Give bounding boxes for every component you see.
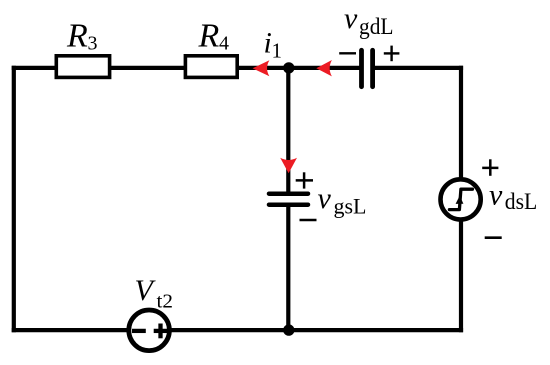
resistor R4	[185, 56, 237, 78]
wire: bottom horizontal left (Vt2 to corner)	[12, 328, 127, 332]
svg-text:v: v	[318, 182, 332, 215]
capacitor vgdL: right plate	[370, 50, 375, 86]
capacitor vgsL: bottom plate	[269, 202, 308, 207]
arrowhead on step symbol	[456, 196, 464, 204]
svg-text:R: R	[66, 18, 88, 55]
node: bottom junction	[283, 324, 294, 335]
wire: bottom horizontal right (corner to node to Vt2)	[171, 328, 463, 332]
svg-text:3: 3	[88, 32, 98, 54]
wire: right vertical upper (corner to source vdsL)	[459, 66, 463, 179]
svg-text:v: v	[344, 2, 358, 35]
svg-text:dsL: dsL	[505, 189, 538, 214]
minus sign below vgsL capacitor	[300, 219, 317, 221]
wire: middle vertical from node to capacitor vgsL	[286, 68, 290, 194]
source Vt2 circle	[129, 310, 170, 351]
wire: R4 to capacitor vgdL (through node)	[237, 66, 360, 70]
wire: between R3 and R4	[110, 66, 186, 70]
minus sign below vdsL	[485, 236, 502, 239]
current arrow (right of node)	[316, 60, 332, 76]
plus sign above vdsL	[482, 159, 498, 176]
plus sign inside Vt2	[154, 324, 168, 339]
capacitor vgdL: left plate	[359, 50, 364, 86]
source vdsL circle	[441, 179, 481, 219]
current arrow downward on middle branch	[280, 158, 297, 174]
wire: capacitor vgdL to top-right corner	[375, 66, 463, 70]
resistor R3	[56, 56, 109, 78]
svg-text:1: 1	[272, 39, 283, 63]
svg-text:V: V	[135, 274, 157, 307]
svg-text:t2: t2	[157, 291, 174, 313]
minus sign left of vgdL capacitor	[339, 52, 356, 54]
svg-text:gdL: gdL	[359, 14, 394, 39]
svg-text:R: R	[198, 18, 220, 55]
wire: left vertical side	[12, 66, 16, 332]
svg-text:4: 4	[219, 32, 229, 54]
svg-text:gsL: gsL	[334, 193, 367, 218]
capacitor vgsL: top plate	[269, 191, 308, 196]
svg-text:v: v	[489, 179, 503, 212]
plus sign right of vgdL capacitor	[384, 46, 400, 62]
step symbol inside vdsL	[449, 189, 472, 209]
wire: top-left horizontal (corner to R3)	[12, 66, 57, 70]
minus sign inside Vt2	[132, 329, 146, 333]
plus sign above vgsL capacitor	[296, 172, 313, 188]
wire: middle vertical from capacitor vgsL to bottom node	[286, 205, 290, 330]
current arrow i1 (left of node)	[253, 60, 270, 76]
node: top junction	[283, 62, 294, 73]
wire: right vertical lower (vdsL to bottom corner)	[459, 220, 463, 332]
